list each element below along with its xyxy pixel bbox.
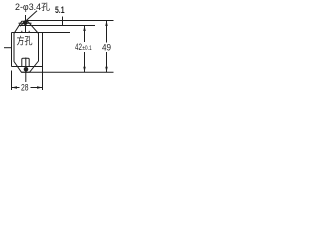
svg-text:2-φ3.4孔: 2-φ3.4孔 [15, 2, 50, 12]
svg-text:49: 49 [102, 43, 111, 54]
svg-text:28: 28 [21, 83, 29, 94]
svg-text:5.1: 5.1 [55, 5, 65, 15]
svg-text:±0.1: ±0.1 [82, 45, 92, 52]
svg-text:42: 42 [75, 42, 82, 53]
svg-text:方孔: 方孔 [17, 35, 33, 48]
